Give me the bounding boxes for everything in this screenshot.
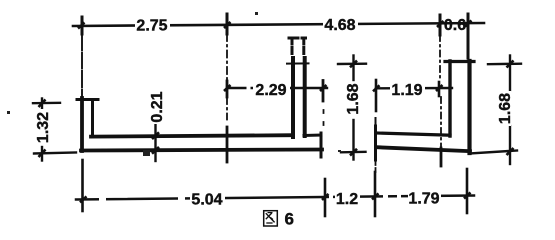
top dim tick x82	[81, 17, 84, 34]
left channel: slab top line	[91, 135, 292, 136]
centerline x227 dash-dot	[226, 34, 228, 80]
left channel: slab bottom line	[81, 150, 322, 151]
top dimension line	[73, 23, 484, 26]
centerline x440 dash-dot upper	[439, 35, 441, 80]
dim 1.32: bottom tick line	[34, 153, 76, 154]
svg-text:4.68: 4.68	[324, 17, 355, 34]
svg-text:1.68: 1.68	[497, 93, 514, 124]
centerline x375 lower to bottom tick	[375, 160, 377, 172]
svg-text:0.21: 0.21	[149, 91, 166, 122]
dim 1.32: top tick line	[33, 102, 60, 105]
2.29 right tick x323	[322, 81, 325, 102]
white gaps for dimension texts	[35, 15, 511, 207]
specks	[7, 12, 341, 156]
svg-text:1.2: 1.2	[336, 191, 358, 208]
svg-text:5.04: 5.04	[191, 192, 222, 209]
centerline x441 slab crossing tick	[440, 148, 443, 166]
dim 1.68 left: bottom tick	[341, 151, 366, 154]
bottom tick x325	[324, 179, 327, 216]
right channel: inner wall	[448, 61, 451, 136]
dim 1.68 left: top tick	[338, 63, 366, 66]
middle wall dashed left	[291, 38, 294, 57]
top dim tick x468 / extension to right wall cap	[467, 14, 470, 58]
centerline x227 lower	[226, 98, 228, 122]
middle wall: short tick stub at y63	[287, 62, 309, 64]
svg-text:1.32: 1.32	[35, 112, 52, 143]
caption 图 (drawn)	[264, 211, 278, 226]
2.29 dim tick x227	[226, 81, 229, 97]
middle wall: left vertical	[291, 58, 295, 137]
centerline x441 dash-dot mid	[440, 97, 442, 147]
right channel: slab bottom line	[376, 147, 470, 151]
top dim tick x440	[439, 15, 442, 35]
dim 1.68 right: bottom extension line	[470, 151, 517, 154]
dim 0.21: vertical line	[154, 121, 156, 161]
left channel: slab top right of middle wall	[304, 134, 321, 138]
centerline x323 remnants	[323, 110, 325, 113]
right channel: slab top line	[376, 133, 450, 135]
left channel: wall top cap	[77, 98, 98, 101]
svg-text:2.29: 2.29	[255, 82, 286, 99]
middle wall: right vertical	[303, 58, 307, 136]
tick slashes at dimension crossings	[39, 21, 514, 203]
svg-text:0.6: 0.6	[444, 17, 466, 34]
dim 1.32: vertical stubs	[41, 99, 43, 109]
right channel: slab left end cap	[374, 126, 377, 160]
dim 1.68 right: vertical line	[509, 56, 511, 91]
right channel: wall top cap	[445, 60, 474, 63]
dimension line 2.29	[227, 87, 327, 89]
centerline x375 dash-dot upper	[375, 80, 378, 111]
bottom tick x83	[81, 160, 84, 211]
centerline x227 slab crossing tick	[226, 127, 229, 162]
top dim tick x227	[226, 14, 229, 34]
extension line left x82 down to wall	[81, 34, 83, 98]
dim 1.68 right: top tick	[488, 63, 521, 66]
middle wall dashed top	[289, 37, 306, 40]
svg-text:2.75: 2.75	[136, 18, 167, 35]
svg-text:1.79: 1.79	[408, 191, 439, 208]
svg-text:1.68: 1.68	[345, 83, 362, 114]
bottom dimension line	[76, 196, 474, 200]
middle wall dashed right	[302, 38, 305, 57]
right channel: outer wall	[467, 61, 471, 153]
dimension line 1.19	[376, 87, 452, 90]
svg-text:1.19: 1.19	[391, 82, 422, 99]
1.19 right tick x439	[438, 82, 441, 96]
bottom tick x375	[374, 172, 377, 216]
dim 1.68 left: vertical line	[352, 56, 354, 81]
left channel: slab right end cap	[320, 133, 323, 157]
left channel: inner wall	[91, 100, 94, 137]
svg-text:6: 6	[284, 210, 293, 229]
left channel: outer wall	[80, 98, 84, 151]
bottom tick x467	[466, 169, 469, 213]
